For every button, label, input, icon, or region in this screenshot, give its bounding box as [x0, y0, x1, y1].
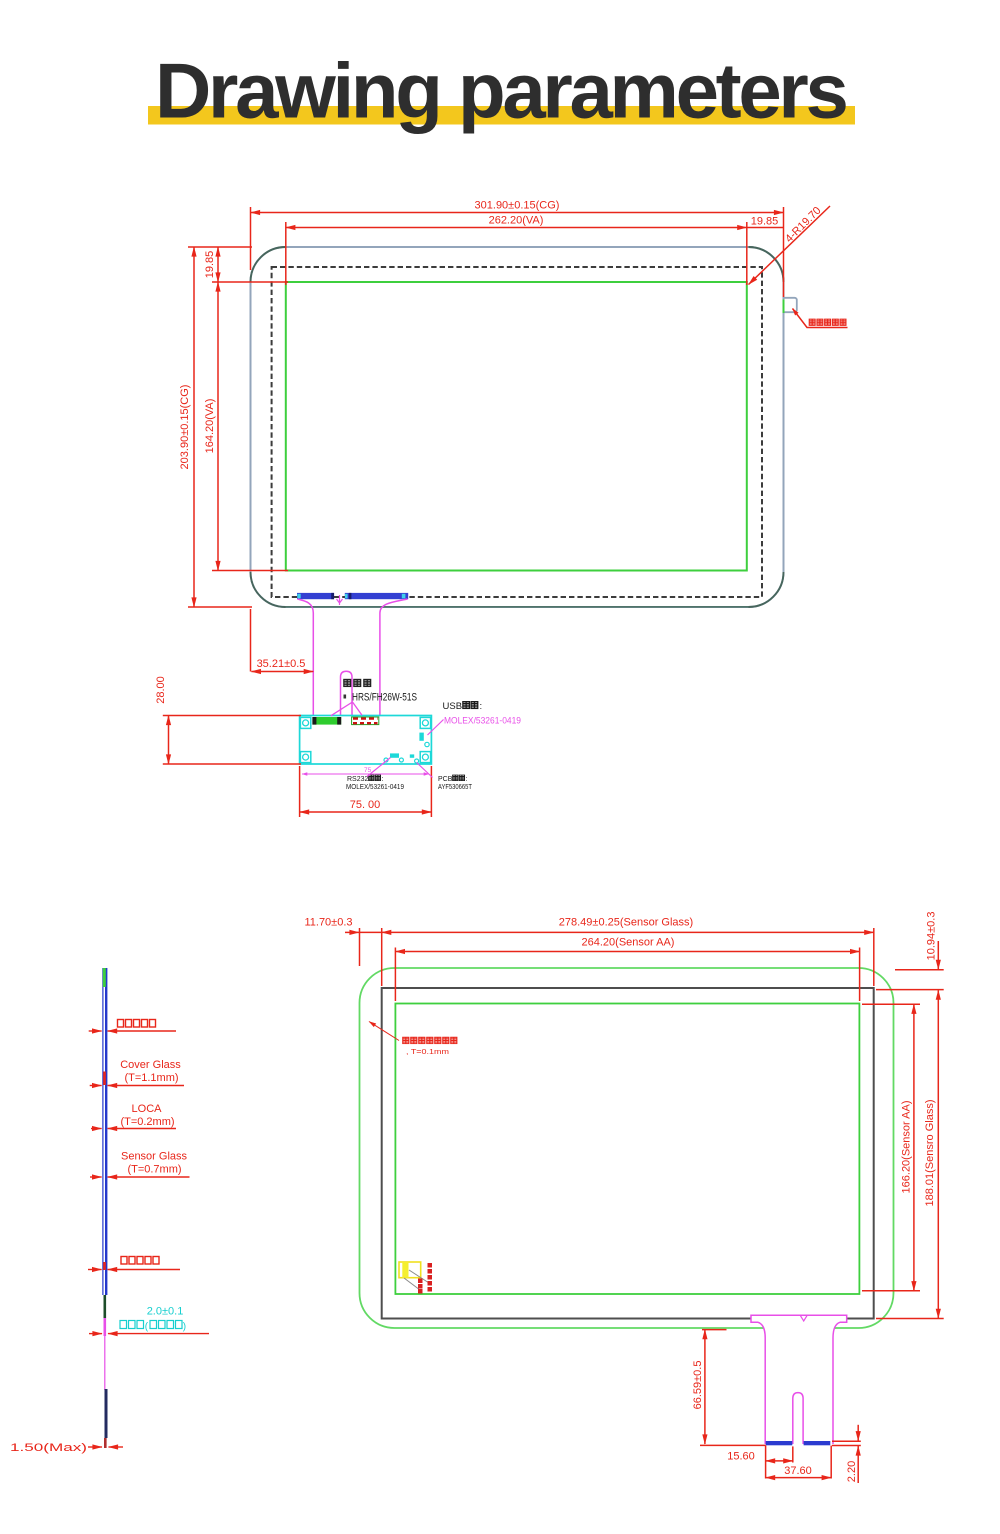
cyan squares row	[120, 1321, 182, 1329]
dim 10.94 extensions	[895, 969, 944, 971]
FPC connector strip right	[345, 593, 408, 599]
red thickness mark cover glass	[103, 1072, 106, 1086]
dashed inner outline	[272, 267, 762, 597]
connector leader lines	[331, 702, 362, 716]
PCB pad top-right	[420, 717, 430, 728]
tail connector strip right	[804, 1441, 831, 1445]
FPC tail slit	[341, 671, 353, 715]
svg-text:Cover Glass: Cover Glass	[120, 1059, 181, 1071]
tag red text column 1	[428, 1263, 433, 1292]
dim 278.49	[382, 931, 874, 933]
tail slit	[793, 1393, 803, 1444]
cover glass bottom edge dark	[286, 606, 749, 608]
svg-text:10.94±0.3: 10.94±0.3	[926, 912, 938, 961]
label 标签片单面带胶	[403, 1037, 457, 1043]
stack magenta segment	[104, 1318, 107, 1336]
dim 2.20	[832, 1440, 861, 1442]
FPC connector strip left	[297, 593, 334, 599]
svg-text:1.50(Max): 1.50(Max)	[10, 1442, 87, 1454]
svg-text:203.90±0.15(CG): 203.90±0.15(CG)	[179, 385, 191, 470]
svg-text:2.0±0.1: 2.0±0.1	[147, 1306, 184, 1318]
dim 301.90 line	[251, 212, 784, 214]
dim 10.94 + 188.01 vertical	[937, 941, 939, 969]
svg-text:301.90±0.15(CG): 301.90±0.15(CG)	[475, 200, 560, 212]
RS232 leader	[367, 758, 391, 777]
dim 11.70	[345, 931, 359, 933]
dim 37.60	[766, 1477, 832, 1479]
sensor AA outline (green)	[395, 1004, 859, 1295]
FPC tail (white fill)	[751, 1315, 847, 1444]
FPC tail outline	[751, 1315, 847, 1444]
yellow tag	[399, 1262, 421, 1278]
corner arc bottom-right	[749, 572, 784, 607]
svg-text:RS232: RS232	[347, 776, 369, 783]
FPC tail left edge	[298, 599, 314, 716]
svg-text:19.85: 19.85	[751, 216, 779, 228]
cover glass outline	[251, 247, 784, 607]
extension lines top	[250, 207, 252, 270]
tab leader	[793, 309, 848, 328]
extension from panel left	[250, 609, 252, 672]
svg-text:15.60: 15.60	[727, 1451, 755, 1463]
svg-text:278.49±0.25(Sensor Glass): 278.49±0.25(Sensor Glass)	[559, 917, 693, 929]
PCB small component	[410, 754, 414, 757]
svg-text:MOLEX/53261-0419: MOLEX/53261-0419	[346, 784, 404, 791]
dim 35.21 line	[251, 671, 313, 673]
stack dark green segment	[104, 1295, 107, 1318]
dim 15.60	[766, 1460, 793, 1462]
protective film tab	[784, 298, 797, 312]
svg-text:19.85: 19.85	[204, 251, 216, 279]
RS232 component	[390, 753, 399, 757]
svg-text::: :	[466, 776, 468, 783]
svg-text:Drawing parameters: Drawing parameters	[155, 47, 846, 135]
layer line 4	[90, 1176, 190, 1178]
svg-text:166.20(Sensor AA): 166.20(Sensor AA)	[901, 1101, 913, 1194]
tag leaders	[409, 1270, 429, 1283]
svg-text:66.59±0.5: 66.59±0.5	[692, 1361, 704, 1410]
PCB leader	[417, 763, 433, 778]
flange center notch	[801, 1316, 807, 1321]
svg-text:188.01(Sensro Glass): 188.01(Sensro Glass)	[924, 1100, 936, 1207]
extension lines left	[188, 246, 252, 248]
corner arc top-right	[749, 247, 784, 282]
tab label 保护膜撕手	[809, 319, 846, 325]
svg-text:2.20: 2.20	[846, 1461, 858, 1482]
svg-text:75. 00: 75. 00	[350, 799, 381, 811]
dim 262.20 line + 19.85 right	[286, 227, 747, 229]
cover glass outline (green, rounded)	[360, 968, 894, 1328]
corner arc bottom-left	[251, 572, 286, 607]
svg-text:MOLEX/53261-0419: MOLEX/53261-0419	[444, 716, 521, 727]
dim 203.90 vertical line	[193, 247, 195, 607]
FPC tail right edge	[380, 599, 408, 716]
svg-text:75: 75	[364, 767, 372, 774]
tab green edge mark	[783, 300, 785, 314]
dim 188.01 extensions	[876, 1318, 944, 1320]
red thickness mark tail	[103, 1262, 106, 1270]
title highlight bar	[148, 106, 855, 125]
svg-text:164.20(VA): 164.20(VA)	[204, 399, 216, 454]
svg-text::: :	[480, 701, 483, 712]
PCB pad top-left	[300, 717, 310, 728]
PCB pad bottom-left	[300, 752, 310, 763]
svg-text::: :	[382, 776, 384, 783]
svg-text:35.21±0.5: 35.21±0.5	[257, 658, 306, 670]
svg-text:262.20(VA): 262.20(VA)	[489, 215, 544, 227]
stack FPC tail line	[104, 1336, 106, 1390]
squares row 2	[121, 1257, 159, 1265]
PCB pad bottom-right	[420, 752, 430, 763]
corner arc top-left	[251, 247, 286, 282]
radius leader 4-R19.70	[749, 206, 831, 285]
stack tip red	[104, 1438, 107, 1448]
dim 166.20 vertical	[913, 1004, 915, 1290]
PCB internal width dim (magenta)	[302, 773, 429, 775]
tail connector strip left	[766, 1441, 793, 1445]
PCB outline	[300, 716, 432, 765]
svg-text:LOCA: LOCA	[132, 1103, 163, 1115]
sensor glass outline (dark)	[382, 988, 874, 1319]
svg-text:11.70±0.3: 11.70±0.3	[304, 917, 352, 929]
FFC connector 2 (red)	[352, 717, 379, 725]
comma mark	[344, 695, 347, 699]
svg-text:): )	[183, 1322, 186, 1333]
svg-text:USB: USB	[443, 701, 463, 712]
svg-text:(T=0.2mm): (T=0.2mm)	[120, 1116, 174, 1128]
stack glass edge line (blue)	[102, 968, 104, 1295]
svg-text:HRS/FH26W-51S: HRS/FH26W-51S	[352, 692, 417, 704]
FPC strip center mark	[337, 595, 343, 605]
dim 75.00	[300, 811, 432, 813]
stack stiffener	[105, 1389, 108, 1438]
layer line 6 (2.0 dim)	[89, 1333, 209, 1335]
VA green outline	[286, 282, 747, 571]
svg-text:Sensor Glass: Sensor Glass	[121, 1151, 188, 1163]
svg-text:(T=1.1mm): (T=1.1mm)	[124, 1072, 178, 1084]
svg-text:AYF530665T: AYF530665T	[438, 784, 473, 791]
dim 19.85 + 164.20 vertical line	[217, 247, 219, 282]
svg-text:37.60: 37.60	[784, 1465, 812, 1477]
dim 28.00	[168, 716, 170, 765]
svg-text:4-R19.70: 4-R19.70	[783, 205, 823, 245]
USB component	[419, 733, 423, 741]
FFC connector 1 (green)	[312, 717, 341, 725]
label leader (tape)	[369, 1022, 399, 1041]
layer line 1	[89, 1030, 176, 1032]
tag red text column 2	[418, 1279, 423, 1294]
svg-text:28.00: 28.00	[155, 676, 167, 704]
dim 66.59	[704, 1330, 706, 1444]
squares row 1	[118, 1020, 156, 1028]
svg-text:(: (	[145, 1322, 149, 1333]
layer line 3	[91, 1128, 176, 1130]
dim 1.50 arrows	[88, 1446, 123, 1448]
stack green tip	[103, 968, 106, 987]
svg-text:, T=0.1mm: , T=0.1mm	[406, 1047, 449, 1056]
strip cyan ticks	[297, 594, 300, 599]
USB leader	[428, 720, 444, 736]
svg-text:264.20(Sensor AA): 264.20(Sensor AA)	[582, 937, 675, 949]
svg-text:PCB: PCB	[438, 776, 453, 783]
label 连接器	[344, 679, 371, 686]
layer line 5	[88, 1269, 180, 1271]
svg-text:(T=0.7mm): (T=0.7mm)	[127, 1164, 181, 1176]
dim 264.20	[395, 951, 859, 953]
layer line 2	[90, 1085, 184, 1087]
